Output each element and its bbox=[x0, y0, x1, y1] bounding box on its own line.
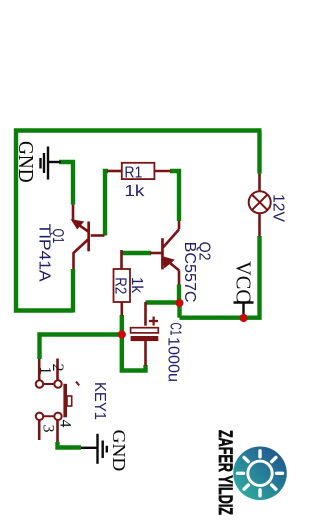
svg-text:1000u: 1000u bbox=[165, 337, 182, 382]
svg-text:1k: 1k bbox=[124, 183, 145, 200]
svg-text:4: 4 bbox=[57, 420, 74, 428]
svg-text:12V: 12V bbox=[270, 194, 287, 222]
svg-text:1k: 1k bbox=[128, 277, 145, 294]
svg-text:GND: GND bbox=[14, 141, 38, 183]
svg-text:TIP41A: TIP41A bbox=[35, 224, 52, 282]
svg-text:3: 3 bbox=[40, 425, 57, 433]
svg-text:2: 2 bbox=[49, 364, 66, 372]
svg-text:R1: R1 bbox=[124, 164, 142, 181]
svg-text:R2: R2 bbox=[112, 277, 129, 294]
svg-text:VCC: VCC bbox=[232, 261, 256, 303]
svg-text:BC557C: BC557C bbox=[181, 242, 198, 303]
svg-text:ZAFER YILDIZ: ZAFER YILDIZ bbox=[214, 430, 235, 515]
svg-text:GND: GND bbox=[109, 430, 129, 472]
svg-text:C1: C1 bbox=[167, 323, 184, 336]
svg-text:KEY1: KEY1 bbox=[91, 382, 108, 420]
